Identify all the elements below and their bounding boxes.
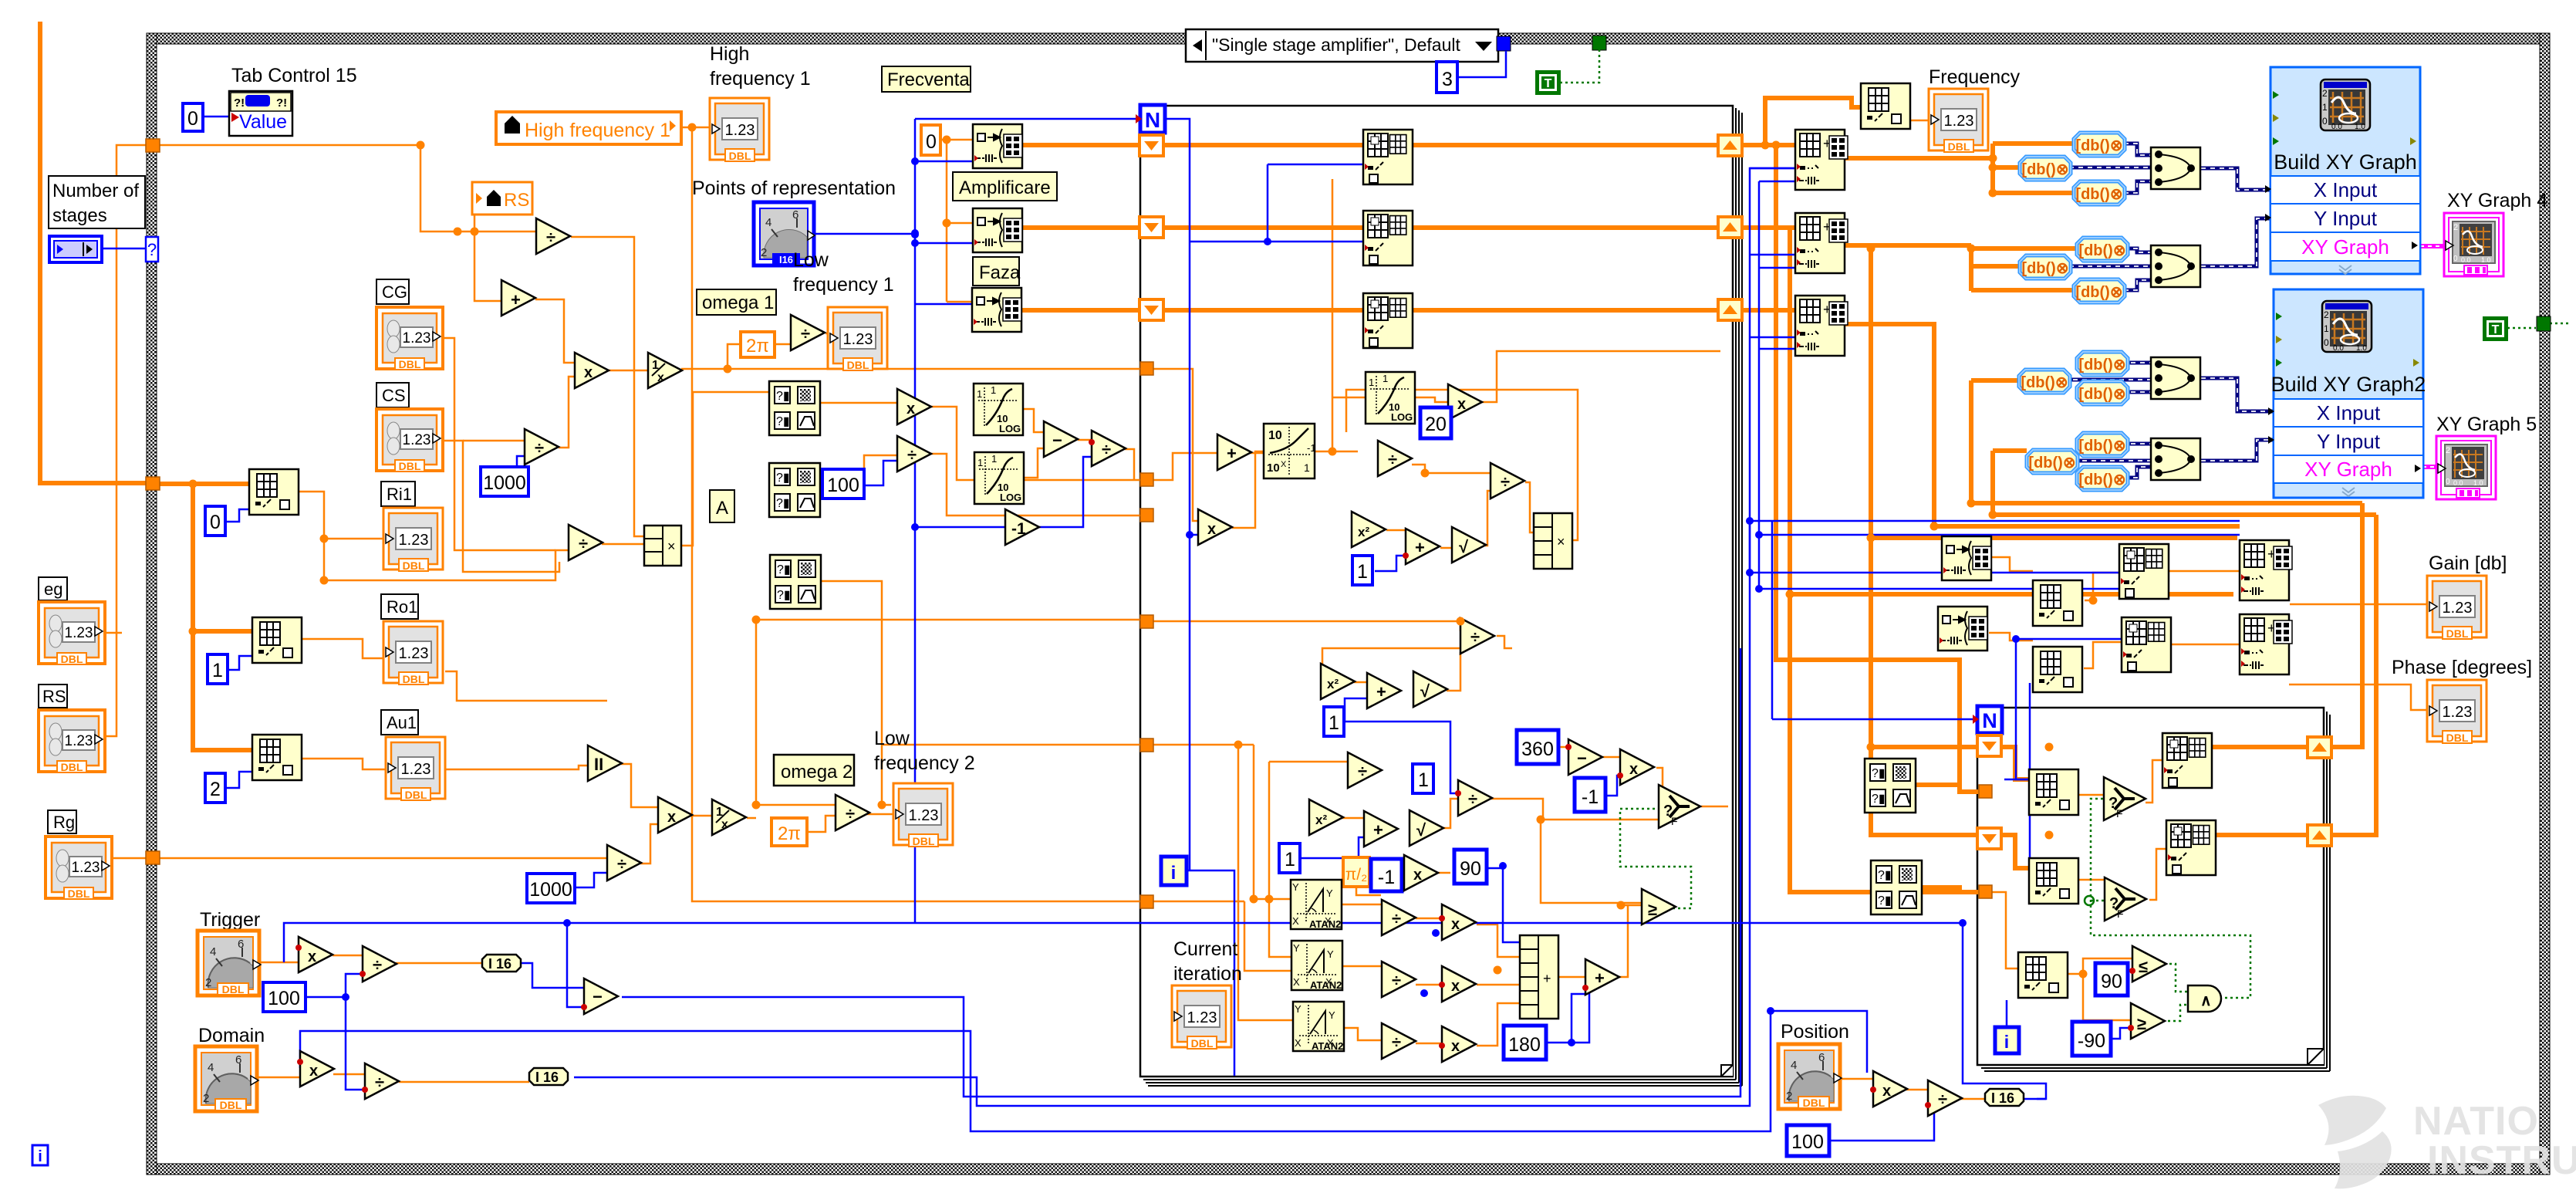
svg-text:XY Graph: XY Graph bbox=[2301, 235, 2389, 259]
multiply trigger bbox=[299, 937, 333, 972]
svg-text:x: x bbox=[906, 401, 915, 417]
wire Rg long run bbox=[112, 857, 607, 860]
select node main bbox=[1659, 785, 1700, 828]
svg-text:20: 20 bbox=[1425, 414, 1447, 435]
constant 100 trigger bbox=[263, 982, 306, 1012]
replace node row3 bbox=[1795, 296, 1848, 356]
knob Trigger bbox=[198, 931, 261, 995]
divide at3 bbox=[1382, 1023, 1416, 1059]
constant 1 upper bbox=[1352, 556, 1372, 585]
svg-text:x: x bbox=[308, 948, 316, 965]
svg-text:x: x bbox=[1882, 1083, 1891, 1100]
pill g2x a bbox=[2077, 352, 2128, 375]
insert node row2 bbox=[1363, 211, 1413, 265]
wire cluster white dashes bbox=[2069, 144, 2270, 193]
svg-text:Amplificare: Amplificare bbox=[959, 177, 1051, 198]
wire trigger divide to I16 bbox=[396, 962, 482, 965]
svg-text:0: 0 bbox=[926, 131, 937, 153]
I16 conversion c bbox=[1985, 1089, 2024, 1106]
multiply 1131 bbox=[1404, 855, 1438, 891]
constant -1 bbox=[1575, 778, 1605, 812]
svg-text:NATIO: NATIO bbox=[2413, 1099, 2539, 1144]
wire hf1 down long vertical bbox=[692, 127, 1140, 901]
label Rg bbox=[48, 810, 76, 833]
green tunnel on while top border bbox=[1592, 35, 1606, 50]
svg-text:Points of representation: Points of representation bbox=[692, 177, 896, 199]
svg-text:≤: ≤ bbox=[2139, 957, 2148, 976]
svg-text:x: x bbox=[1457, 396, 1466, 413]
svg-text:N: N bbox=[1145, 108, 1160, 132]
wire array row2 to case bbox=[1022, 225, 1720, 230]
wire omega2 divide chain bbox=[640, 824, 658, 864]
wire position chain bbox=[1838, 1079, 1985, 1099]
init array node 1 bbox=[973, 124, 1022, 168]
svg-text:x: x bbox=[1413, 867, 1422, 884]
wire 100 to divide bbox=[863, 461, 897, 485]
wire multiply1131 out bbox=[1437, 872, 1450, 874]
constant 360 bbox=[1517, 730, 1558, 764]
svg-text:Faza: Faza bbox=[979, 262, 1021, 283]
I16 conversion b bbox=[529, 1068, 568, 1085]
svg-text:√: √ bbox=[1416, 820, 1426, 840]
wire domain top long bbox=[300, 1011, 1867, 1131]
wire divide625 to compound4 bbox=[1525, 482, 1534, 532]
wire divide682 to compound bbox=[602, 543, 644, 546]
wire divide285 out down long vertical bbox=[571, 237, 644, 536]
mugs node 2 bbox=[769, 463, 820, 517]
svg-text:RS: RS bbox=[504, 190, 529, 211]
wire Ri1 feed bbox=[299, 492, 383, 580]
indicator High frequency 1 bbox=[710, 98, 769, 162]
svg-text:Domain: Domain bbox=[198, 1025, 265, 1046]
LOG node 2 bbox=[974, 452, 1024, 504]
wire phase out bbox=[2289, 685, 2427, 710]
svg-text:√: √ bbox=[1420, 681, 1430, 701]
label omega 2 bbox=[774, 755, 854, 786]
svg-text:2π: 2π bbox=[778, 823, 801, 844]
wire mugs3 out bbox=[822, 581, 882, 745]
divide log bbox=[1092, 431, 1126, 466]
wire domain I16 long bbox=[574, 168, 1795, 1106]
sqrt mid bbox=[1413, 671, 1447, 707]
divide omega2b bbox=[607, 845, 641, 881]
label RS bbox=[39, 685, 67, 708]
wire array row1 after node bbox=[1413, 143, 1795, 147]
wire compound4 out bbox=[1346, 390, 1578, 540]
wire exp out junction bbox=[1314, 179, 1366, 451]
indicator Ro1 bbox=[383, 621, 443, 685]
svg-text:stages: stages bbox=[52, 205, 107, 226]
indicator Low frequency 1 bbox=[828, 307, 887, 371]
tunnel square Rg row bbox=[146, 851, 160, 864]
wire xy graph 4 bbox=[2420, 244, 2444, 248]
multiply domain bbox=[300, 1051, 334, 1087]
iteration terminal i main bbox=[1161, 857, 1187, 885]
LOG node 1 bbox=[974, 384, 1023, 435]
pill g1x a bbox=[2074, 133, 2125, 156]
constant 1 sel bbox=[1413, 764, 1433, 793]
tab control terminal bbox=[229, 91, 292, 136]
svg-text:+: + bbox=[511, 290, 521, 309]
inner index node 1 bbox=[2029, 769, 2078, 815]
pill g1y a bbox=[2077, 238, 2128, 261]
label omega 1 bbox=[697, 289, 776, 315]
index array node Ri1 bbox=[249, 469, 299, 515]
inner down tunnel 2 bbox=[1977, 828, 2001, 849]
svg-text:1000: 1000 bbox=[483, 472, 526, 494]
up tunnel row3 bbox=[1718, 299, 1742, 320]
svg-text:Y Input: Y Input bbox=[2314, 207, 2378, 230]
label A bbox=[710, 490, 734, 522]
indicator Gain bbox=[2427, 576, 2487, 640]
constant 1 low bbox=[1279, 843, 1300, 873]
wire top feed to node1 bbox=[1765, 98, 1861, 145]
wire array row1 inside case bbox=[1163, 143, 1363, 147]
wire plus out to multiply bbox=[535, 299, 575, 363]
inner for loop dog-ear bbox=[2308, 1049, 2324, 1065]
constant 0 tab bbox=[183, 103, 203, 131]
wire CG out bbox=[438, 338, 555, 550]
svg-text:"Single stage amplifier", Defa: "Single stage amplifier", Default bbox=[1212, 35, 1460, 55]
wire compound out up to mugs bbox=[681, 392, 769, 546]
wire array row3 inside bbox=[1163, 308, 1795, 313]
wire 180 to plus bbox=[1545, 994, 1585, 1043]
inner index node 2 bbox=[2029, 858, 2078, 904]
svg-text:−: − bbox=[1052, 431, 1062, 450]
svg-text:x: x bbox=[309, 1063, 318, 1080]
wire select boolean loop bbox=[1620, 809, 1691, 908]
svg-text:Gain [db]: Gain [db] bbox=[2429, 553, 2507, 574]
bundle g1x bbox=[2151, 147, 2200, 189]
divide ri bbox=[569, 525, 603, 560]
svg-text:≥: ≥ bbox=[1648, 900, 1657, 919]
divide 977 bbox=[1348, 752, 1382, 788]
constant pi/2 bbox=[1343, 857, 1369, 887]
express VI Build XY Graph2 bbox=[2268, 289, 2426, 498]
svg-text:Build XY Graph2: Build XY Graph2 bbox=[2271, 373, 2426, 396]
label Faza bbox=[973, 257, 1019, 286]
case selector label bar bbox=[1186, 29, 1498, 62]
svg-text:Ro1: Ro1 bbox=[387, 597, 417, 617]
svg-text:x: x bbox=[721, 818, 728, 831]
wire divide582 out bbox=[1125, 449, 1134, 480]
up tunnel row1 bbox=[1718, 135, 1742, 156]
wire omega2 junction bbox=[747, 620, 1140, 832]
mugs node 3 bbox=[770, 555, 821, 609]
wire T const right to tunnel bbox=[2507, 323, 2569, 328]
multiply position bbox=[1873, 1071, 1907, 1107]
gain row index node bbox=[2033, 580, 2082, 626]
wire CS out bbox=[438, 441, 559, 572]
svg-text:Tab Control 15: Tab Control 15 bbox=[231, 65, 357, 86]
svg-text:90: 90 bbox=[2101, 971, 2122, 992]
constant 90 bbox=[1454, 850, 1487, 884]
svg-text:CS: CS bbox=[382, 386, 406, 405]
divide 824 bbox=[1460, 618, 1494, 654]
pill g2y a bbox=[2077, 433, 2128, 456]
wire x2 862 chain bbox=[1322, 648, 1460, 818]
bundle g1y bbox=[2151, 245, 2200, 287]
tunnel sq y965 bbox=[1140, 739, 1153, 752]
wire mugsR2 out bbox=[1919, 887, 1960, 892]
svg-text:x: x bbox=[1451, 916, 1460, 933]
constant 90 inner bbox=[2095, 963, 2128, 995]
iteration terminal i inner bbox=[1995, 1027, 2019, 1053]
constant 1000 bbox=[481, 467, 528, 496]
atan2 node 2 bbox=[1291, 941, 1342, 991]
replace node row2 bbox=[1795, 213, 1848, 273]
wire 100 trigger junction bbox=[304, 974, 365, 1090]
wire log chain bbox=[1022, 409, 1044, 478]
svg-text:÷: ÷ bbox=[546, 228, 555, 247]
svg-text:Phase [degrees]: Phase [degrees] bbox=[2392, 657, 2532, 678]
indicator Au1 bbox=[386, 737, 445, 801]
wire 2 const to Au1 node bbox=[225, 772, 252, 788]
case structure shadow frames right bbox=[1736, 108, 1742, 1086]
svg-text:+: + bbox=[1373, 820, 1383, 840]
frequency index node bbox=[1861, 83, 1910, 129]
constant 20 bbox=[1420, 407, 1451, 438]
wire build to plus bbox=[1558, 976, 1585, 979]
wire divide588 to tunnel bbox=[931, 454, 1140, 515]
coercion dots bbox=[360, 971, 366, 977]
label Ro1 bbox=[381, 594, 418, 619]
indicator Frequency bbox=[1929, 89, 1988, 153]
wire freq node to indicator bbox=[1911, 120, 1929, 122]
wire array row1 to pills bbox=[1844, 144, 2074, 194]
label Amplificare bbox=[953, 172, 1057, 201]
inner for loop shadow bbox=[1981, 712, 2330, 1071]
pill g1x c bbox=[2074, 181, 2125, 205]
svg-text:Frequency: Frequency bbox=[1929, 66, 2021, 88]
inner select 1 bbox=[2104, 777, 2146, 820]
wire atan rows feeds bbox=[1153, 745, 1348, 1020]
svg-text:II: II bbox=[594, 755, 603, 774]
wire bus vertical to inner loop arrays bbox=[1871, 248, 2237, 835]
svg-text:High frequency 1: High frequency 1 bbox=[525, 120, 670, 141]
svg-text:+: + bbox=[1543, 971, 1551, 986]
svg-text:≥: ≥ bbox=[2137, 1014, 2146, 1033]
up tunnel row2 bbox=[1718, 217, 1742, 238]
constant 1 mid bbox=[1324, 707, 1344, 736]
constant 2 bbox=[205, 773, 225, 803]
label Ri1 bbox=[381, 482, 415, 506]
wire RS up the left rail bbox=[105, 145, 147, 736]
pill g1y c bbox=[2074, 279, 2125, 303]
constant -1 b bbox=[1371, 859, 1402, 891]
wire Au1 to parallel bbox=[445, 766, 588, 769]
wire 3 to selector bbox=[1457, 51, 1506, 77]
wire gain row chain bbox=[1992, 557, 2240, 600]
svg-text:÷: ÷ bbox=[1470, 627, 1480, 647]
wire log2 to multiply bbox=[1416, 397, 1448, 402]
svg-text:frequency 2: frequency 2 bbox=[874, 752, 975, 774]
LOG node 3 bbox=[1366, 372, 1415, 424]
wire rail branches to init nodes bbox=[915, 161, 973, 304]
svg-text:N: N bbox=[1982, 709, 1997, 732]
svg-text:?!: ?! bbox=[234, 96, 245, 110]
inner N terminal bbox=[1973, 706, 2002, 733]
index tunnel row3 bbox=[1139, 299, 1163, 320]
wire array row3 down the bus bbox=[1844, 324, 2240, 526]
express VI Build XY Graph bbox=[2265, 67, 2420, 274]
svg-text:x: x bbox=[1451, 1038, 1460, 1055]
pill g2x c bbox=[2077, 381, 2128, 404]
wire array row2 inside bbox=[1163, 225, 1795, 230]
inner insert node 2 bbox=[2166, 820, 2216, 875]
svg-text:x: x bbox=[657, 371, 664, 384]
svg-text:i: i bbox=[38, 1148, 42, 1165]
multiply mugs bbox=[897, 389, 931, 424]
phase row insert node bbox=[2122, 617, 2171, 672]
svg-text:Build XY Graph: Build XY Graph bbox=[2274, 150, 2417, 174]
init array node 3 bbox=[972, 288, 1021, 332]
svg-text:frequency 1: frequency 1 bbox=[710, 68, 811, 90]
svg-text:+: + bbox=[1415, 538, 1425, 557]
svg-text:÷: ÷ bbox=[375, 1073, 384, 1092]
svg-text:XY Graph: XY Graph bbox=[2304, 458, 2392, 481]
divide omega2c bbox=[836, 795, 869, 830]
control eg bbox=[39, 602, 105, 665]
tunnel sq y478 bbox=[1140, 362, 1153, 375]
divide mugs bbox=[897, 436, 931, 472]
wire omega2 to indicator bbox=[866, 813, 893, 816]
divide omega1 bbox=[791, 315, 825, 350]
multiply 20log bbox=[1448, 384, 1482, 420]
wire y752 run bbox=[324, 550, 569, 580]
wire multiply527 to tunnel bbox=[931, 407, 1140, 480]
init array node 2 bbox=[973, 208, 1022, 252]
svg-text:π/₂: π/₂ bbox=[1345, 866, 1367, 884]
wire tunnel622 to plus bbox=[1152, 453, 1217, 480]
inner up tunnel 2 bbox=[2308, 825, 2331, 846]
divide position bbox=[1928, 1080, 1962, 1116]
wire I16 to minus bbox=[521, 923, 584, 1007]
label Au1 bbox=[381, 710, 418, 735]
wire cluster g1 X bbox=[2069, 144, 2270, 193]
wire thick left inner vertical bbox=[159, 484, 252, 750]
wire Ro1 out bbox=[445, 671, 607, 701]
svg-text:Au1: Au1 bbox=[387, 713, 417, 732]
wire select out bbox=[1701, 806, 1728, 808]
inner down tunnel 1 bbox=[1977, 735, 2001, 756]
pill g2x b bbox=[2019, 370, 2070, 393]
svg-text:x: x bbox=[1629, 761, 1638, 778]
svg-text:i: i bbox=[2004, 1032, 2009, 1052]
for loop dog-ear corner bbox=[1721, 1065, 1733, 1077]
wire sqrt1073 chain bbox=[1443, 799, 1458, 828]
svg-text:0: 0 bbox=[187, 108, 198, 130]
wire bus row1 down to inner tunnel bbox=[1776, 145, 1979, 792]
constant 100 position bbox=[1787, 1125, 1829, 1156]
x squared low bbox=[1309, 799, 1343, 835]
divide trigger bbox=[363, 946, 397, 982]
inner index node 3 bbox=[2018, 952, 2068, 998]
wire 0 const b bbox=[225, 509, 249, 522]
svg-text:÷: ÷ bbox=[617, 854, 626, 874]
wire trigger multiply to divide bbox=[333, 955, 363, 957]
wire knob points out bbox=[812, 233, 915, 235]
svg-text:+: + bbox=[1227, 444, 1237, 463]
subtract 981 bbox=[1568, 739, 1602, 775]
index array node Au1 bbox=[252, 735, 302, 780]
watermark national instruments bbox=[2318, 1096, 2576, 1189]
gain row replace node bbox=[2240, 540, 2292, 600]
wire right rail b bbox=[1750, 168, 1795, 535]
wire divide1035 to select bbox=[1491, 799, 1659, 820]
svg-text:1: 1 bbox=[1357, 561, 1368, 583]
add low bbox=[1364, 811, 1398, 847]
control CG bbox=[376, 307, 443, 370]
wire divide824 chain bbox=[1497, 636, 1512, 648]
phase row index node bbox=[2033, 647, 2082, 692]
inner tunnel sq 2 bbox=[1979, 885, 1992, 898]
svg-text:eg: eg bbox=[44, 580, 62, 599]
wire bus graph2 X bbox=[1971, 380, 2362, 747]
indicator XY Graph 4 bbox=[2444, 213, 2503, 276]
local variable RS bbox=[472, 182, 532, 215]
svg-text:÷: ÷ bbox=[1392, 1033, 1401, 1052]
add phase bbox=[1585, 959, 1619, 995]
svg-text:1000: 1000 bbox=[529, 879, 572, 901]
svg-text:Low: Low bbox=[793, 249, 829, 271]
gain row insert node bbox=[2119, 544, 2169, 599]
wire 1 to plus905 bbox=[1345, 698, 1367, 722]
mugs node right 2 bbox=[1871, 860, 1922, 914]
wire multiplies to build bbox=[1477, 925, 1520, 1046]
wire tab const bbox=[202, 116, 228, 118]
svg-text:i: i bbox=[1171, 863, 1177, 884]
pill g2y c bbox=[2077, 467, 2128, 490]
control Rg bbox=[46, 837, 112, 900]
inner up tunnel 1 bbox=[2308, 737, 2331, 758]
wire sqrt chain mid bbox=[1447, 652, 1460, 691]
wire xy graph 5 bbox=[2422, 465, 2436, 469]
wire bus row2 down to inner tunnel2 bbox=[1790, 228, 1979, 892]
inner for loop frame bbox=[1977, 708, 2324, 1065]
wire 20 const bbox=[1446, 422, 1450, 424]
multiply at1 bbox=[1442, 904, 1476, 940]
svg-text:omega 2: omega 2 bbox=[781, 762, 852, 783]
wire inner loop row1 bbox=[2000, 747, 2308, 779]
case structure shadow frames bottom bbox=[1143, 1080, 1742, 1086]
constant 100 bbox=[822, 469, 864, 499]
indicator Current iteration bbox=[1172, 985, 1231, 1050]
constant 180 bbox=[1504, 1026, 1546, 1060]
svg-text:Value: Value bbox=[239, 111, 287, 133]
green boolean wires bbox=[1560, 44, 2569, 1021]
compound multiply bbox=[644, 526, 681, 566]
svg-text:iteration: iteration bbox=[1173, 963, 1242, 985]
wire multiply684 out bbox=[1232, 451, 1264, 528]
svg-text:÷: ÷ bbox=[1468, 789, 1477, 809]
wire inner and loop bbox=[2091, 799, 2250, 998]
insert node row3 bbox=[1363, 293, 1413, 348]
wire T const to tunnel bbox=[1560, 44, 1599, 83]
constant -90 bbox=[2072, 1022, 2111, 1056]
T constant top bbox=[1535, 70, 1561, 95]
divide 1035 bbox=[1458, 780, 1492, 816]
wire domain dial to multiply bbox=[255, 1077, 300, 1079]
indicator XY Graph 5 bbox=[2436, 436, 2496, 499]
wire domain divide to I16 bbox=[399, 1081, 529, 1083]
svg-text:÷: ÷ bbox=[1102, 440, 1111, 459]
mugs node right 1 bbox=[1865, 759, 1916, 813]
wire tab/RS feed across top bbox=[159, 145, 536, 301]
wire cluster g1 Y bbox=[2069, 218, 2270, 290]
svg-text:-90: -90 bbox=[2078, 1030, 2105, 1052]
number of stages control bbox=[49, 236, 102, 262]
